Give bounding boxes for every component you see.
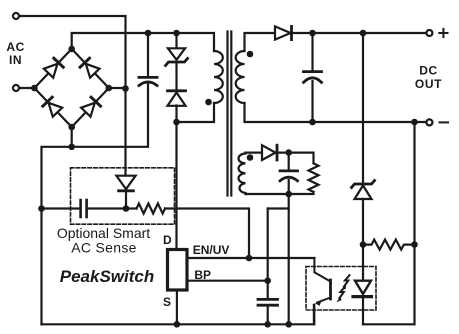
wire drain line (clamp bottom node down to PeakSwitch D pin)	[175, 106, 177, 249]
wire clamp branch top lead	[175, 33, 177, 48]
wire S pin to primary ground bus	[176, 292, 178, 325]
wire between clamp zener and blocking diode	[175, 62, 177, 90]
AC sense capacitor C3	[79, 200, 82, 217]
optocoupler U2 dashed outline	[306, 267, 376, 311]
node bridge AC right junction	[122, 85, 129, 92]
wire rectified HV bus (bridge top to primary top)	[72, 33, 214, 51]
primary winding polarity dot	[205, 99, 212, 106]
wire bias return vertical (to primary ground bus)	[288, 194, 290, 324]
svg-text:EN/UV: EN/UV	[193, 243, 230, 257]
clamp zener VR1 (cathode down)	[166, 48, 188, 65]
node EN/UV junction	[246, 255, 253, 262]
node BP cap on ground bus	[264, 321, 271, 328]
svg-text:S: S	[163, 295, 171, 309]
wire BP capacitor bottom lead	[267, 306, 269, 325]
wire sense capacitor to sense node	[88, 207, 137, 209]
AC sense diode D7 (cathode down)	[116, 176, 135, 191]
wire clamp node to primary winding bottom	[177, 103, 215, 122]
wire output capacitor top lead	[311, 33, 313, 71]
bridge diode D1 (upper-left)	[44, 58, 63, 77]
secondary winding polarity dot	[247, 51, 254, 58]
optocoupler U2 phototransistor body	[329, 280, 332, 299]
wire BP branch top stub to bias return	[268, 207, 289, 209]
wire bridge right node stub	[109, 87, 126, 89]
node bias return on ground bus	[285, 321, 292, 328]
wire bulk capacitor top lead	[147, 33, 149, 76]
node bridge top	[68, 46, 75, 53]
wire primary ground bus	[42, 305, 314, 324]
clamp blocking diode D5 (cathode up)	[168, 91, 186, 106]
node bulk cap top	[145, 30, 152, 37]
DC+ output terminal	[426, 30, 432, 36]
bulk capacitor C1 (polarized)	[139, 76, 157, 79]
node feedback zener/resistor/LED	[360, 241, 367, 248]
node output cap bottom	[309, 119, 316, 126]
transformer T1 primary winding	[214, 51, 223, 103]
wire DC- drop (terminal to feedback resistor and secondary ground)	[413, 122, 415, 245]
bridge diode D2 (upper-right)	[80, 58, 99, 77]
wire zener to feedback node	[362, 199, 364, 245]
wire secondary ground run (DC- drop to opto LED cathode)	[363, 245, 415, 325]
wire opto LED cathode lead	[362, 298, 364, 324]
wire AC sense row left (node to sense capacitor)	[42, 207, 80, 209]
node bias diode output	[285, 149, 292, 156]
wire output capacitor bottom lead	[311, 81, 313, 122]
bridge diode D4 (lower-right)	[81, 97, 100, 116]
optocoupler U2 LED	[353, 281, 372, 297]
wire feedback branch lead (DC+ down to zener)	[362, 33, 364, 184]
feedback bias resistor R2	[363, 240, 415, 250]
wire opto LED anode lead	[362, 245, 364, 281]
node clamp bottom / drain	[173, 119, 180, 126]
AC input terminal top	[13, 13, 19, 19]
node BP junction	[264, 277, 271, 284]
wire primary negative rail (left drop to bottom bus and to bulk cap)	[42, 84, 149, 324]
wire opto emitter to primary ground bus	[313, 305, 315, 325]
PeakSwitch IC U1 body	[168, 250, 188, 291]
wire bias winding top lead	[246, 152, 263, 154]
node DC- junction	[411, 119, 418, 126]
wire DC+ output bus	[291, 32, 425, 34]
opto light arrow 1	[344, 275, 350, 287]
node clamp top	[173, 30, 180, 37]
svg-text:DC: DC	[419, 64, 438, 78]
opto light arrow 2	[339, 287, 345, 299]
transformer T1 core	[226, 32, 228, 196]
svg-text:IN: IN	[9, 53, 22, 67]
wire bias capacitor top lead	[288, 153, 290, 170]
bridge rectifier diamond wires	[34, 49, 108, 127]
svg-text:BP: BP	[194, 268, 211, 282]
node bridge left	[31, 85, 38, 92]
BP capacitor C4	[258, 298, 278, 301]
svg-text:D: D	[163, 233, 172, 247]
wire secondary return (to DC- terminal)	[245, 103, 426, 122]
AC sense dashed outline	[71, 168, 175, 224]
output rectifier diode D6	[275, 26, 292, 39]
wire sense diode cathode lead	[125, 191, 127, 209]
node bridge right	[106, 85, 113, 92]
wire sense resistor to EN/UV junction	[165, 209, 249, 259]
node source on ground bus	[174, 321, 181, 328]
bridge diode D3 (lower-left)	[43, 97, 62, 116]
wire BP branch vertical	[267, 209, 269, 299]
wire secondary top lead	[245, 33, 276, 51]
bias winding polarity dot	[247, 154, 254, 161]
node negative rail tee	[68, 144, 75, 151]
bias capacitor C5 (polarized)	[280, 169, 298, 172]
wire AC line 1 (top terminal to bridge right node, via vertical drop)	[20, 16, 126, 176]
node bias winding return	[285, 191, 292, 198]
DC- output terminal	[426, 119, 432, 125]
wire BP pin line	[189, 280, 268, 282]
wire bias capacitor bottom lead	[288, 180, 290, 194]
bias diode D8	[262, 145, 277, 160]
svg-text:AC Sense: AC Sense	[71, 240, 136, 256]
AC sense resistor R1	[137, 204, 166, 214]
transformer T1 secondary winding	[236, 51, 245, 103]
output capacitor C2 (polarized)	[304, 70, 322, 73]
wire AC line 2 (bottom terminal to bridge left node)	[20, 87, 34, 89]
node feedback branch top	[360, 30, 367, 37]
plus sign	[439, 29, 447, 37]
AC input terminal bottom	[13, 85, 19, 91]
svg-text:PeakSwitch: PeakSwitch	[60, 267, 155, 286]
wire bridge bottom stub	[71, 127, 73, 147]
wire bias node to bias resistor top	[277, 153, 314, 163]
node bridge bottom	[68, 124, 75, 131]
bias resistor R3	[309, 163, 319, 192]
transformer T1 bias winding	[238, 153, 245, 194]
svg-text:OUT: OUT	[415, 77, 442, 91]
feedback zener VR2 (cathode up)	[352, 181, 375, 200]
node sense row left	[38, 205, 45, 212]
minus sign	[440, 121, 449, 123]
opto emitter with arrow	[317, 298, 331, 303]
wire opto collector (from EN/UV line)	[314, 258, 330, 281]
node output cap top	[309, 30, 316, 37]
node feedback resistor right	[411, 241, 418, 248]
node sense diode/resistor	[123, 205, 130, 212]
wire EN/UV line (pin to opto collector)	[189, 257, 315, 259]
wire bias resistor bottom to winding return	[246, 192, 314, 194]
